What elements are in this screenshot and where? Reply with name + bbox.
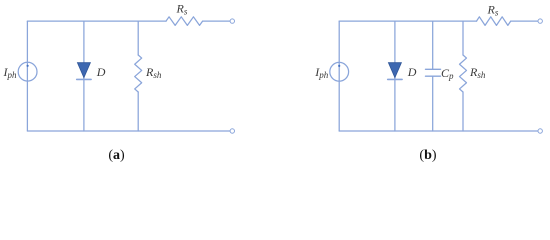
current source Iph (a) arrow dot (27, 65, 29, 67)
capacitor Cp bottom plate (426, 75, 441, 77)
wire: (b) left branch vertical (338, 21, 340, 131)
current source Iph (b) circle (330, 62, 349, 81)
wire: circuit (a) top rail (27, 20, 166, 22)
diode D (b) triangle (388, 63, 401, 78)
wire: (a) shunt branch vertical bottom (137, 92, 139, 131)
diode D (a) triangle (77, 63, 90, 78)
terminal: (a) negative output node (230, 129, 234, 133)
resistor Rsh (a) zigzag (135, 55, 142, 92)
wire: circuit (b) top rail (339, 20, 476, 22)
resistor Rs (a) zigzag (166, 17, 203, 26)
wire: (a) top rail to output terminal (203, 20, 230, 22)
wire: (b) top rail to output terminal (511, 20, 538, 22)
svg-text:Cp: Cp (441, 66, 454, 81)
wire: (b) shunt branch vertical top (462, 21, 464, 55)
svg-text:D: D (96, 65, 106, 79)
svg-text:Rs: Rs (176, 2, 188, 17)
terminal: (a) positive output node (230, 19, 234, 23)
resistor Rsh (b) zigzag (460, 55, 467, 92)
resistor Rs (b) zigzag (477, 17, 511, 26)
capacitor Cp top plate (426, 68, 441, 70)
svg-text:Iph: Iph (3, 65, 18, 80)
svg-text:Iph: Iph (314, 65, 329, 80)
current source Iph (a) circle (18, 62, 37, 81)
svg-text:Rs: Rs (487, 2, 499, 17)
current source Iph (b) arrow dot (338, 65, 340, 67)
svg-text:D: D (407, 65, 417, 79)
wire: (a) diode branch vertical (83, 21, 85, 131)
svg-text:Rsh: Rsh (145, 65, 162, 80)
wire: (a) left branch vertical (26, 21, 28, 131)
svg-text:(b): (b) (419, 148, 436, 163)
terminal: (b) negative output node (538, 129, 542, 133)
diode D (a) cathode bar (77, 78, 91, 80)
wire: (a) shunt branch vertical top (137, 21, 139, 55)
svg-text:(a): (a) (108, 148, 125, 163)
wire: (a) bottom rail (27, 130, 230, 132)
capacitor Cp branch: bottom lead wire (432, 77, 434, 132)
diode D (b) cathode bar (388, 78, 402, 80)
wire: (b) bottom rail (339, 130, 538, 132)
svg-text:Rsh: Rsh (469, 65, 486, 80)
capacitor Cp branch: top lead wire (432, 21, 434, 69)
wire: (b) shunt branch vertical bottom (462, 92, 464, 131)
terminal: (b) positive output node (538, 19, 542, 23)
wire: (b) diode branch vertical (394, 21, 396, 131)
